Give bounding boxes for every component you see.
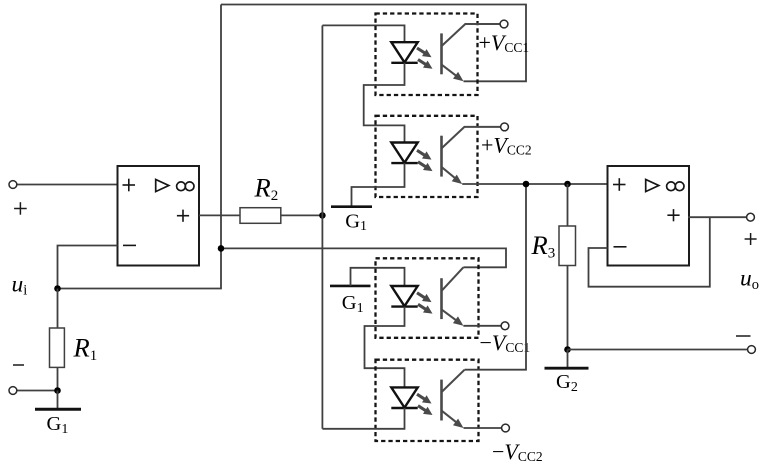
- ground G1 (near R2): [331, 205, 372, 208]
- optocoupler B2 dashed box: [376, 116, 478, 197]
- op-amp U2 triangle infinity mark: [646, 180, 684, 192]
- terminal +VCC1: [500, 20, 508, 28]
- terminal input plus: [9, 181, 17, 189]
- resistor R1: [50, 328, 65, 367]
- wire node to ground G2: [567, 350, 569, 369]
- phototransistor B2: [442, 127, 501, 187]
- wire feedback tap to opto B3 collector: [221, 248, 506, 267]
- LED B2: [391, 143, 417, 164]
- terminal input minus: [9, 387, 17, 395]
- wire U1 minus input to node ui: [58, 246, 118, 289]
- wire B3 cathode to B4 anode: [365, 307, 405, 388]
- op-amp U1 minus input mark: [123, 244, 136, 246]
- label plus (output): [745, 233, 757, 245]
- op-amp U2 plus input mark: [613, 178, 626, 191]
- wire LED chain column: [321, 25, 323, 428]
- light arrows B4: [417, 394, 435, 418]
- op-amp U1 plus input mark: [123, 179, 136, 192]
- node output bus: [523, 181, 530, 188]
- wire R3 top stub: [567, 184, 569, 226]
- node G2: [564, 346, 571, 353]
- ground G1 (near B3): [330, 285, 371, 288]
- wire node ui to resistor R1: [57, 289, 59, 329]
- svg-text:+VCC1: +VCC1: [479, 30, 530, 55]
- terminal -VCC2: [502, 424, 510, 432]
- op-amp U1: [118, 166, 200, 266]
- optocoupler B4 dashed box: [376, 360, 479, 441]
- label minus (output): [736, 335, 751, 337]
- node feedback tap: [218, 245, 225, 252]
- LED B4: [391, 387, 417, 408]
- wire B1 cathode to B2 anode: [364, 63, 405, 143]
- svg-text:ui: ui: [12, 271, 28, 298]
- terminal output minus: [748, 346, 756, 354]
- svg-text:R1: R1: [73, 333, 98, 365]
- light arrows B1: [417, 48, 435, 72]
- light arrows B3: [417, 293, 435, 317]
- node R2 output: [319, 212, 326, 219]
- wire R2 to LED column node: [281, 214, 323, 216]
- LED B1: [391, 42, 417, 63]
- svg-text:−VCC1: −VCC1: [480, 330, 531, 355]
- optocoupler B1 dashed box: [376, 14, 478, 96]
- wire LED column to opto B1 anode: [322, 25, 404, 42]
- phototransistor B1: [442, 24, 500, 85]
- wire input minus terminal: [17, 390, 58, 392]
- wire ground G1b to B3 anode: [351, 268, 405, 286]
- svg-text:G1: G1: [345, 210, 367, 234]
- wire U1 output to resistor R2: [199, 214, 240, 216]
- phototransistor B4: [442, 370, 467, 432]
- wire B2 cathode to ground G1a: [352, 163, 405, 207]
- terminal output plus: [747, 213, 755, 221]
- LED B3: [391, 286, 417, 307]
- op-amp U1 triangle infinity mark: [156, 180, 194, 192]
- svg-text:G1: G1: [342, 292, 364, 316]
- resistor R3: [559, 226, 576, 266]
- label plus (input): [14, 202, 27, 215]
- terminal -VCC1: [501, 322, 509, 330]
- op-amp U2 minus input mark: [614, 246, 627, 248]
- wire U2 output to terminal: [688, 216, 747, 218]
- wire top feedback to opto B1 emitter: [221, 5, 526, 82]
- wire U2 feedback: [589, 217, 710, 287]
- svg-text:R2: R2: [254, 173, 279, 205]
- wire B4 collector to output bus: [465, 184, 526, 370]
- resistor R2: [240, 208, 281, 224]
- wire B3 emitter to terminal: [463, 325, 501, 327]
- op-amp U2 output plus mark: [667, 209, 679, 221]
- wire B4 cathode to LED column: [322, 408, 404, 429]
- wire node to ground G1: [57, 391, 59, 410]
- svg-text:−VCC2: −VCC2: [492, 439, 543, 462]
- phototransistor B3: [442, 267, 466, 329]
- op-amp U2: [608, 166, 690, 266]
- ground G1 (input): [35, 408, 81, 411]
- light arrows B2: [417, 150, 435, 174]
- svg-text:G1: G1: [47, 413, 69, 437]
- node lower input: [54, 387, 61, 394]
- op-amp U1 output plus mark: [177, 210, 189, 222]
- optocoupler B3 dashed box: [376, 258, 479, 338]
- wire output node row: [462, 183, 607, 185]
- svg-text:+VCC2: +VCC2: [481, 132, 532, 157]
- node R3 top: [564, 181, 571, 188]
- svg-text:G2: G2: [556, 371, 578, 395]
- wire output minus row: [568, 349, 748, 351]
- svg-text:R3: R3: [531, 230, 556, 262]
- node ui: [54, 285, 61, 292]
- label minus (input): [13, 364, 24, 366]
- wire node ui to feedback column: [58, 5, 222, 289]
- terminal +VCC2: [501, 123, 509, 131]
- svg-text:uo: uo: [740, 266, 759, 293]
- ground G2: [545, 367, 589, 370]
- wire input plus terminal to op-amp U1: [17, 184, 118, 186]
- wire R1 to lower input node: [57, 367, 59, 390]
- wire B4 emitter to terminal: [464, 427, 502, 429]
- wire R3 bottom to ground node: [567, 266, 569, 350]
